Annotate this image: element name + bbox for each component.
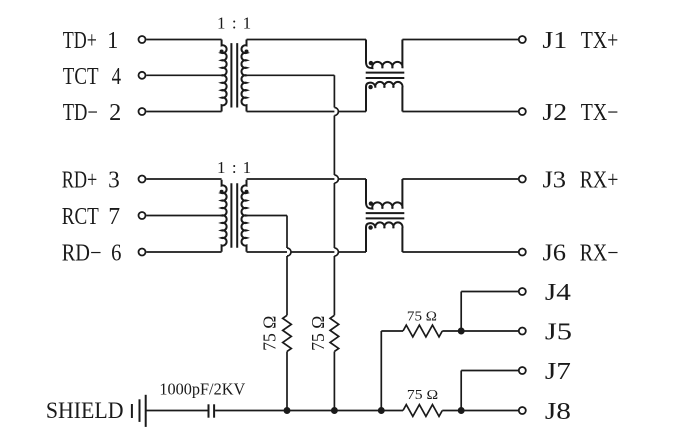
pin J8 terminal — [519, 407, 526, 414]
wire hop (V1 over y=179) — [334, 175, 338, 183]
wire R2 to bus — [333, 352, 335, 411]
svg-text:J5: J5 — [545, 319, 572, 345]
pin J2 terminal — [519, 108, 526, 115]
wire T2 secondary top to choke L2 — [247, 178, 367, 180]
choke L2 lower phase dot — [368, 225, 372, 229]
resistor R4 75 ohm (bus) — [403, 405, 442, 417]
transformer T1 core — [231, 43, 237, 107]
svg-text:75 Ω: 75 Ω — [308, 316, 328, 351]
junction dot V2-bus — [284, 407, 291, 414]
resistor R3 75 ohm (J5 row) — [403, 325, 442, 337]
choke L2 upper winding — [366, 179, 403, 209]
shield terminal stroke 1 — [131, 404, 133, 418]
transformer T1 secondary winding — [241, 40, 246, 112]
svg-text:75 Ω: 75 Ω — [407, 388, 438, 403]
wire shield to capacitor C1 — [146, 410, 208, 412]
svg-text:1:1: 1:1 — [217, 14, 251, 33]
svg-text:TCT: TCT — [63, 63, 99, 90]
junction dot V1-bus — [331, 407, 338, 414]
choke L2 lower winding — [366, 222, 403, 252]
choke L1 core — [366, 73, 405, 78]
svg-text:4: 4 — [112, 63, 122, 90]
wire RD+ lead — [146, 178, 221, 180]
wire R3 to J5 — [442, 330, 518, 332]
pin J4 terminal — [519, 288, 526, 295]
wire T1 secondary top to choke L1 — [247, 39, 367, 41]
transformer T1 primary phase dot — [220, 50, 224, 54]
choke L1 upper winding — [366, 40, 403, 69]
wire hop (V1 over y=252) — [334, 248, 338, 256]
transformer T2 core — [231, 183, 237, 247]
svg-text:RX−: RX− — [580, 239, 619, 266]
wire hop (V2 over J6 row) — [287, 248, 291, 256]
svg-text:1:1: 1:1 — [217, 158, 251, 177]
wire choke L2 to J6 — [402, 251, 518, 253]
wire hop (V1 over y=111.5) — [334, 108, 338, 116]
svg-text:TD+: TD+ — [63, 26, 97, 53]
svg-text:J2: J2 — [542, 99, 567, 126]
wire V2 vertical segments — [286, 216, 288, 316]
svg-text:J6: J6 — [542, 240, 566, 267]
svg-text:75 Ω: 75 Ω — [407, 309, 437, 324]
wire T1 secondary bottom to choke L1 — [247, 111, 367, 113]
wire choke L1 to J2 — [402, 111, 518, 113]
wire RD- lead — [146, 251, 221, 253]
wire to J4 — [461, 291, 518, 293]
pin J3 terminal — [519, 176, 526, 183]
junction dot bus-J7 branch — [458, 407, 465, 414]
transformer T2 secondary phase dot — [245, 190, 249, 194]
transformer T2 secondary winding — [241, 180, 246, 252]
transformer T2 primary phase dot — [220, 190, 224, 194]
pin J5 terminal — [519, 328, 526, 335]
wire J5 junction up to J4 row — [460, 292, 462, 332]
svg-text:J3: J3 — [542, 167, 566, 194]
svg-text:1000pF/2KV: 1000pF/2KV — [159, 380, 245, 399]
wire bus up to R3 — [380, 331, 382, 411]
wire choke L1 to J1 — [402, 39, 518, 41]
pin TD+ terminal — [139, 36, 146, 43]
wire T2 secondary center tap — [247, 215, 288, 217]
svg-text:6: 6 — [111, 239, 121, 266]
svg-text:TX−: TX− — [581, 98, 619, 125]
svg-text:3: 3 — [108, 167, 120, 193]
wire TD+ lead — [146, 39, 221, 41]
choke L2 core — [366, 213, 405, 218]
wire to J7 — [461, 370, 518, 372]
choke L2 upper phase dot — [369, 201, 373, 205]
wire T1 secondary center tap — [247, 74, 335, 76]
pin J1 terminal — [519, 36, 526, 43]
choke L1 lower phase dot — [368, 85, 372, 89]
svg-text:J1: J1 — [542, 27, 567, 54]
svg-text:J7: J7 — [545, 358, 571, 385]
wire R1 to bus — [286, 352, 288, 411]
resistor R1 75 ohm (vertical) — [283, 315, 292, 351]
svg-text:1: 1 — [107, 27, 118, 54]
wire RCT lead — [146, 215, 221, 217]
svg-text:TD−: TD− — [63, 99, 98, 126]
pin J6 terminal — [519, 249, 526, 256]
resistor R2 75 ohm (vertical) — [330, 315, 339, 351]
wire T2 secondary bottom to choke L2 — [247, 251, 367, 253]
wire TD- lead — [146, 111, 221, 113]
svg-text:2: 2 — [109, 99, 121, 126]
pin TD- terminal — [139, 108, 146, 115]
wire R4 to J8 — [442, 410, 518, 412]
pin RD- terminal — [139, 249, 146, 256]
junction dot J5 row-J4 branch — [458, 328, 465, 335]
wire TCT lead — [146, 74, 221, 76]
pin RCT terminal — [139, 212, 146, 219]
svg-text:RD+: RD+ — [62, 166, 98, 193]
transformer T1 secondary phase dot — [245, 50, 249, 54]
wire bus junction up to J7 row — [460, 371, 462, 411]
shield terminal stroke 3 — [145, 395, 147, 427]
wire capacitor to bus — [215, 410, 403, 412]
wire R3 left lead — [381, 330, 403, 332]
pin RD+ terminal — [139, 176, 146, 183]
svg-text:J4: J4 — [545, 278, 571, 305]
capacitor C1 left plate — [208, 404, 210, 417]
pin TCT terminal — [139, 72, 146, 79]
svg-text:SHIELD: SHIELD — [46, 398, 124, 424]
svg-text:7: 7 — [108, 204, 120, 230]
capacitor C1 right plate — [213, 404, 215, 417]
transformer T1 primary winding — [222, 40, 227, 112]
transformer T2 primary winding — [222, 180, 227, 252]
wire choke L2 to J3 — [402, 178, 518, 180]
svg-text:RD−: RD− — [62, 239, 102, 266]
svg-text:J8: J8 — [545, 398, 571, 425]
choke L1 lower winding — [366, 82, 403, 112]
wire V1 vertical segments — [333, 75, 335, 315]
svg-text:TX+: TX+ — [581, 26, 619, 53]
junction dot bus-R3 branch — [378, 407, 385, 414]
svg-text:RCT: RCT — [62, 203, 99, 230]
shield terminal stroke 2 — [139, 399, 141, 422]
svg-text:RX+: RX+ — [580, 166, 619, 193]
choke L1 upper phase dot — [369, 61, 373, 65]
svg-text:75 Ω: 75 Ω — [259, 316, 279, 351]
pin J7 terminal — [519, 367, 526, 374]
